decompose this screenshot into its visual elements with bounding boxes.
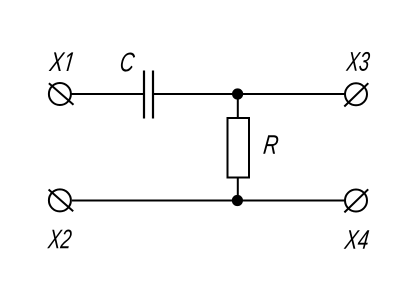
wire resistor bottom to node B [237,179,239,201]
terminal X1 [49,83,74,105]
terminal X4 [344,189,368,212]
label X2 [47,229,72,248]
label X3 [346,52,371,71]
capacitor C [144,71,153,119]
wire X1 to C [72,93,145,95]
label X4 [344,230,370,249]
label R [263,135,279,154]
resistor R [228,118,250,178]
node B junction dot [232,195,243,206]
terminal X2 [49,189,74,211]
terminal X3 [344,83,368,106]
wire node A to resistor top [237,94,239,117]
label X1 [49,52,74,71]
wire C to node A [153,93,238,95]
wire node B to X4 [237,200,344,202]
node A junction dot [232,88,243,99]
wire X2 to node B [72,200,237,202]
wire node A to X3 [238,93,345,95]
label C [120,52,136,71]
